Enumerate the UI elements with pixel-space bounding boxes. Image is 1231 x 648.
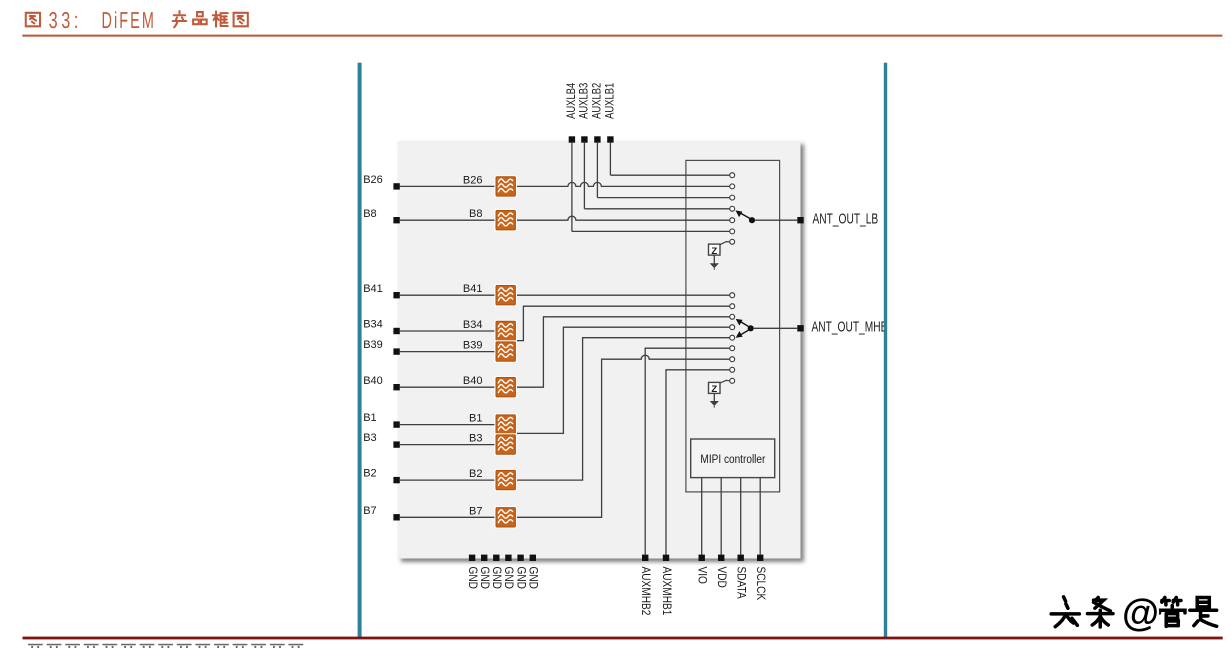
svg-text:GND: GND — [466, 567, 479, 590]
filter B7 — [494, 506, 517, 529]
pin GND1 — [469, 555, 475, 561]
wire B34 filter to switch — [517, 306, 730, 340]
bottom rule (dark red) — [23, 637, 1223, 640]
svg-text:B1: B1 — [363, 412, 376, 424]
LB switch contact 6 — [730, 229, 735, 234]
wire MIPI SCLCK — [759, 477, 761, 554]
pin AUXMHB2 — [642, 555, 648, 561]
wire B41 filter to switch — [517, 294, 730, 296]
label SDATA — [734, 567, 747, 600]
filter B41 — [494, 284, 517, 307]
MIPI controller U2 — [691, 439, 775, 478]
wire AUXLB1 vertical — [609, 143, 611, 176]
pin AUXLB3 — [581, 136, 587, 142]
port pin B1 — [393, 421, 399, 427]
wire AUXLB2 to switch — [597, 197, 729, 199]
wire B2 input — [400, 479, 495, 481]
MHB switch pole — [748, 325, 754, 331]
MHB switch arm up — [740, 321, 749, 326]
svg-text:B8: B8 — [363, 208, 376, 220]
svg-text:B34: B34 — [363, 319, 383, 331]
wire B40 input — [400, 386, 495, 388]
svg-text:B41: B41 — [463, 283, 483, 295]
ground MHB — [713, 393, 715, 401]
pin GND5 — [517, 555, 523, 561]
port pin B7 — [393, 514, 399, 520]
pin AUXLB1 — [607, 136, 613, 142]
wire B7 filter to switch — [517, 355, 730, 517]
MHB switch contact 1 — [730, 293, 735, 298]
svg-text:B39: B39 — [363, 339, 383, 351]
svg-text:B26: B26 — [463, 174, 483, 186]
pin GND4 — [505, 555, 511, 561]
svg-text:B41: B41 — [363, 283, 383, 295]
title text 图 33: DiFEM 产品框图 — [26, 11, 248, 27]
wire B1 input — [400, 424, 495, 426]
svg-text:AUXLB1: AUXLB1 — [604, 83, 617, 119]
svg-text:ANT_OUT_LB: ANT_OUT_LB — [813, 209, 879, 227]
source note (clipped) — [28, 644, 303, 648]
label GND3 — [490, 567, 503, 590]
port pin B34 — [393, 328, 399, 334]
MHB switch contact 5 — [730, 335, 735, 340]
title underline — [22, 35, 1222, 37]
svg-text:GND: GND — [490, 567, 503, 590]
MHB switch contact 4 — [730, 325, 735, 330]
port pin B26 — [393, 183, 399, 189]
svg-text:33:: 33: — [49, 8, 82, 34]
svg-text:AUXLB3: AUXLB3 — [578, 83, 591, 119]
pin VDD — [718, 555, 724, 561]
LB switch contact 7 — [730, 239, 735, 244]
MHB switch contact 9 — [730, 378, 735, 383]
filter B40 — [494, 376, 517, 399]
wire AUXLB4 to switch — [572, 230, 730, 232]
wire B1 filter to switch — [517, 327, 730, 433]
filter B1 — [494, 413, 517, 436]
port pin B2 — [393, 477, 399, 483]
wire B40 filter to switch — [517, 317, 730, 387]
wire B3 input — [400, 444, 495, 446]
switch enclosure U1 — [686, 160, 780, 492]
svg-text:AUXLB4: AUXLB4 — [565, 83, 578, 119]
svg-text:GND: GND — [502, 567, 515, 590]
LB switch contact 2 — [730, 184, 735, 189]
pin SCLCK — [757, 555, 763, 561]
pin AUXMHB1 — [663, 555, 669, 561]
LB switch pole — [749, 217, 755, 223]
wire B2 filter to switch — [517, 338, 730, 480]
svg-text:GND: GND — [478, 567, 491, 590]
MHB switch contact 8 — [730, 367, 735, 372]
svg-text:AUXLB2: AUXLB2 — [591, 83, 604, 119]
wire B41 input — [400, 294, 495, 296]
svg-text:MIPI controller: MIPI controller — [700, 453, 765, 466]
port pin B3 — [393, 441, 399, 447]
LB switch contact 1 — [730, 173, 735, 178]
svg-text:VDD: VDD — [715, 567, 728, 589]
filter B3 — [494, 433, 517, 456]
filter B8 — [494, 209, 517, 232]
port pin B39 — [393, 348, 399, 354]
label VDD — [715, 567, 728, 589]
svg-text:SCLCK: SCLCK — [754, 567, 767, 601]
label AUXMHB2 — [639, 567, 652, 616]
pin ANT_OUT_MHB — [797, 325, 803, 331]
wire B34 input — [400, 330, 495, 332]
svg-text:B39: B39 — [463, 340, 483, 352]
svg-text:B2: B2 — [469, 468, 482, 480]
svg-text:@: @ — [1122, 593, 1159, 635]
pin ANT_OUT_LB — [797, 217, 803, 223]
wire B39 input — [400, 351, 495, 353]
pin AUXLB4 — [569, 136, 575, 142]
LB switch contact 3 — [730, 195, 735, 200]
svg-text:GND: GND — [526, 567, 539, 590]
svg-text:B40: B40 — [463, 375, 483, 387]
wire MIPI SDATA — [740, 477, 742, 554]
watermark 头条 @管是 — [1049, 594, 1214, 624]
svg-text:B7: B7 — [469, 505, 482, 517]
pin GND3 — [493, 555, 499, 561]
label MIPI controller — [700, 453, 765, 466]
label GND6 — [526, 567, 539, 590]
svg-text:B40: B40 — [363, 375, 383, 387]
filter B2 — [494, 469, 517, 492]
label GND1 — [466, 567, 479, 590]
MHB switch contact 6 — [730, 346, 735, 351]
label AUXMHB1 — [660, 567, 673, 616]
LB termination Z1 — [709, 244, 721, 255]
label AUXLB1 — [604, 83, 617, 119]
figure border left (teal) — [358, 63, 362, 638]
wire AUXLB4 vertical — [571, 143, 573, 232]
svg-text:B7: B7 — [363, 505, 376, 517]
MHB switch contact 7 — [730, 357, 735, 362]
wire ANT_OUT_MHB — [753, 327, 797, 329]
label VIO — [695, 567, 708, 584]
ground LB — [713, 255, 715, 264]
wire B26 filter to switch — [517, 182, 730, 186]
label ANT_OUT_MHB — [812, 317, 888, 335]
svg-text:DiFEM: DiFEM — [102, 8, 156, 34]
wire AUXLB2 vertical — [596, 143, 598, 198]
filter B39 — [494, 340, 517, 363]
svg-text:B34: B34 — [463, 319, 483, 331]
wire B26 input — [400, 185, 495, 187]
DiFEM module body — [398, 141, 801, 559]
wire B8 input — [400, 219, 495, 221]
pin AUXLB2 — [594, 136, 600, 142]
filter B34 — [494, 320, 517, 343]
label GND5 — [514, 567, 527, 590]
filter B26 — [494, 175, 517, 198]
MHB switch arm down — [740, 330, 749, 335]
wire B8 filter to switch — [517, 216, 730, 220]
pin GND6 — [530, 555, 536, 561]
MHB switch contact 2 — [730, 304, 735, 309]
label AUXLB4 — [565, 83, 578, 119]
svg-text:VIO: VIO — [695, 567, 708, 584]
wire AUXLB1 to switch — [610, 174, 729, 176]
LB switch contact 5 — [730, 218, 735, 223]
port pin B8 — [393, 217, 399, 223]
svg-text:SDATA: SDATA — [734, 567, 747, 600]
MHB switch contact 3 — [730, 314, 735, 319]
wire MIPI VDD — [720, 477, 722, 554]
label GND4 — [502, 567, 515, 590]
label SCLCK — [754, 567, 767, 601]
label GND2 — [478, 567, 491, 590]
wire AUXMHB2 to switch — [645, 348, 729, 554]
wire MIPI VIO — [701, 477, 703, 554]
svg-text:B8: B8 — [469, 208, 482, 220]
svg-text:B26: B26 — [363, 174, 383, 186]
wire AUXMHB1 to switch — [666, 370, 730, 555]
wire Z1 to contact — [720, 242, 730, 245]
wire B7 input — [400, 516, 495, 518]
LB switch contact 4 — [730, 206, 735, 211]
pin GND2 — [481, 555, 487, 561]
svg-text:B2: B2 — [363, 468, 376, 480]
svg-text:B1: B1 — [469, 413, 482, 425]
svg-text:B3: B3 — [469, 433, 482, 445]
pin VIO — [699, 555, 705, 561]
wire ANT_OUT_LB — [755, 219, 798, 221]
MHB termination Z2 — [709, 382, 721, 393]
svg-text:AUXMHB1: AUXMHB1 — [660, 567, 673, 616]
port pin B40 — [393, 384, 399, 390]
svg-text:AUXMHB2: AUXMHB2 — [639, 567, 652, 616]
pin SDATA — [738, 555, 744, 561]
label ANT_OUT_LB — [813, 209, 879, 227]
wire Z2 to contact — [720, 380, 730, 383]
svg-text:B3: B3 — [363, 432, 376, 444]
wire AUXLB3 vertical — [583, 143, 585, 209]
svg-text:GND: GND — [514, 567, 527, 590]
wire AUXLB3 to switch — [584, 208, 729, 210]
port pin B41 — [393, 292, 399, 298]
label AUXLB3 — [578, 83, 591, 119]
figure border right (teal) — [884, 63, 887, 638]
label AUXLB2 — [591, 83, 604, 119]
svg-text:ANT_OUT_MHB: ANT_OUT_MHB — [812, 317, 888, 335]
LB switch arm — [740, 213, 750, 219]
